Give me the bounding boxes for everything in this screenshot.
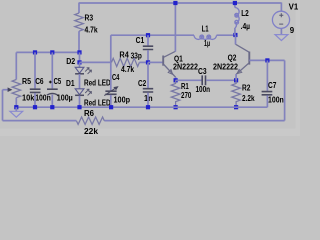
- svg-text:R4: R4: [119, 49, 129, 59]
- wire D2 anode stub from upper node: [79, 52, 81, 62]
- wire emitter row left segment y=80.3: [176, 79, 202, 81]
- wire Q2 emitter stub: [235, 74, 237, 80]
- transistor Q2: [248, 52, 250, 65]
- svg-text:100p: 100p: [114, 94, 131, 104]
- D1 light arrows: [85, 89, 89, 93]
- svg-text:33p: 33p: [131, 50, 142, 60]
- node Q1 collector on top rail: [173, 1, 177, 5]
- capacitor C4 variable: [105, 91, 116, 94]
- LED D2: [75, 67, 84, 73]
- svg-text:22k: 22k: [84, 126, 98, 136]
- svg-text:100µ: 100µ: [57, 92, 73, 102]
- node R3/D2 junction: [77, 50, 81, 54]
- svg-text:Red LED: Red LED: [84, 98, 111, 108]
- svg-text:R6: R6: [84, 108, 94, 118]
- capacitor C7: [262, 92, 273, 95]
- svg-text:R2: R2: [242, 82, 251, 92]
- node L2 top on rail: [233, 1, 237, 5]
- svg-text:Red LED: Red LED: [84, 77, 111, 87]
- ground symbol V1: [275, 35, 288, 41]
- resistor R6: [76, 117, 104, 124]
- resistor R4: [112, 58, 140, 66]
- transistor Q1: [162, 56, 164, 66]
- node D2 anode junction: [77, 60, 81, 64]
- D2 light arrows: [85, 68, 89, 72]
- svg-text:V1: V1: [289, 2, 299, 12]
- capacitor C5 polarized: [47, 88, 58, 90]
- svg-text:C2: C2: [138, 78, 146, 88]
- voltage source V1: [272, 11, 289, 28]
- wire node A to R4 vertical y=62.4: [80, 61, 111, 63]
- wire C4 bottom stub: [110, 95, 112, 107]
- wire C2 top stub: [147, 62, 149, 88]
- wire L2 top stub: [234, 3, 236, 8]
- svg-text:D1: D1: [66, 78, 75, 88]
- wire Q1 collector vertical: [174, 3, 176, 52]
- node C1 top junction: [146, 33, 150, 37]
- wire D2 cathode to D1 anode: [79, 74, 81, 89]
- svg-text:9: 9: [290, 25, 295, 35]
- svg-text:10k: 10k: [22, 92, 35, 102]
- svg-text:2.2k: 2.2k: [242, 93, 255, 103]
- wire emitter row right segment: [206, 79, 236, 81]
- wire R5 top stub: [15, 52, 17, 79]
- svg-text:L2: L2: [241, 8, 249, 18]
- wire V1 top stub: [280, 3, 282, 12]
- resistor R2: [232, 80, 241, 107]
- wire left feedback vertical x=110.8: [110, 35, 112, 90]
- svg-text:D2: D2: [66, 56, 75, 66]
- svg-text:2N2222: 2N2222: [173, 62, 198, 72]
- svg-text:C5: C5: [54, 76, 62, 86]
- svg-text:C6: C6: [35, 76, 44, 86]
- inductor L1: [194, 35, 217, 39]
- svg-text:L1: L1: [202, 23, 209, 33]
- svg-text:C7: C7: [268, 80, 277, 90]
- wire V1 bottom stub: [280, 28, 282, 34]
- node C4 bottom junction: [109, 105, 113, 109]
- wire Q1 emitter stub: [175, 77, 177, 80]
- R5 wiper arrow: [3, 89, 10, 91]
- wire L1 right to tank node: [217, 34, 237, 36]
- node R5 bottom / ground junction: [14, 105, 18, 109]
- node R2 bottom junction: [234, 105, 238, 109]
- svg-text:C1: C1: [136, 35, 145, 45]
- node R1 bottom junction: [174, 105, 178, 109]
- svg-text:2N2222: 2N2222: [213, 62, 238, 72]
- wire C7 bottom stub: [266, 95, 268, 107]
- wire top power rail y=3: [79, 2, 281, 4]
- wire C1 top stub: [147, 35, 149, 45]
- capacitor C3: [202, 75, 205, 85]
- svg-text:C3: C3: [198, 66, 207, 76]
- potentiometer R5: [12, 80, 21, 98]
- wire tank feedback line y=35.2: [111, 34, 194, 36]
- wire Q2 base to right edge: [249, 59, 284, 61]
- LED D1: [75, 89, 84, 95]
- node Q1 emitter/R1/C3 junction: [174, 78, 178, 82]
- svg-text:100n: 100n: [268, 94, 284, 104]
- svg-text:R5: R5: [22, 76, 31, 86]
- plus sign C5: [49, 81, 52, 84]
- svg-text:.4µ: .4µ: [241, 21, 250, 31]
- wire R5 bottom stub: [15, 98, 17, 108]
- wire left feedback vertical x=2.5: [2, 90, 4, 121]
- wire C6 bottom stub: [34, 93, 36, 107]
- wire L2 bottom stub: [234, 28, 236, 35]
- wire C5 bottom stub: [51, 95, 53, 108]
- wire bottom ground rail y=107.2: [16, 106, 267, 108]
- svg-text:C4: C4: [112, 72, 120, 82]
- wire right feedback vertical x=284.6: [284, 60, 286, 120]
- wire R3 top stub: [78, 3, 80, 14]
- wire D2 to triangle: [79, 62, 81, 67]
- node C2 bottom junction: [146, 105, 150, 109]
- capacitor C1: [143, 46, 153, 49]
- svg-text:4.7k: 4.7k: [85, 24, 98, 34]
- wire C5 top stub: [51, 52, 53, 88]
- node C6 top junction: [33, 50, 37, 54]
- node C7 top junction: [265, 58, 269, 62]
- wire left upper rail y=52.4: [16, 51, 79, 53]
- wire Q1 base: [148, 61, 163, 63]
- background canvas: [0, 0, 300, 136]
- resistor R3: [75, 13, 84, 31]
- ground symbol left: [15, 107, 17, 111]
- capacitor C2: [143, 89, 153, 92]
- inductor L2: [235, 8, 239, 29]
- node D1 bottom junction: [77, 105, 81, 109]
- node R4/C1/C2/Q1-base junction: [146, 60, 150, 64]
- capacitor C6: [30, 89, 41, 92]
- svg-text:1µ: 1µ: [204, 38, 210, 48]
- wire bottom feedback line y=121: [104, 120, 284, 122]
- wire R6 left to corner: [3, 120, 77, 122]
- wire R3 bottom stub: [78, 31, 80, 52]
- wire R4 right stub: [139, 61, 148, 63]
- wire C2 bottom stub: [147, 93, 149, 108]
- svg-text:100n: 100n: [196, 84, 211, 94]
- node C5 top junction: [50, 50, 54, 54]
- resistor R1: [171, 80, 180, 107]
- node C5 bottom junction: [50, 105, 54, 109]
- node L1/L2/Q2 collector junction: [233, 33, 237, 37]
- svg-text:270: 270: [181, 90, 192, 100]
- wire C1 bottom stub: [147, 50, 149, 62]
- wire D1 cathode stub: [79, 96, 81, 108]
- node C6 bottom junction: [33, 105, 37, 109]
- wire Q2 collector vertical: [235, 35, 237, 44]
- wire C6 top stub: [34, 52, 36, 88]
- node Q2 emitter/R2/C3 junction: [234, 78, 238, 82]
- svg-text:4.7k: 4.7k: [121, 64, 134, 74]
- wire C7 top stub: [266, 60, 268, 90]
- svg-text:R3: R3: [85, 12, 94, 22]
